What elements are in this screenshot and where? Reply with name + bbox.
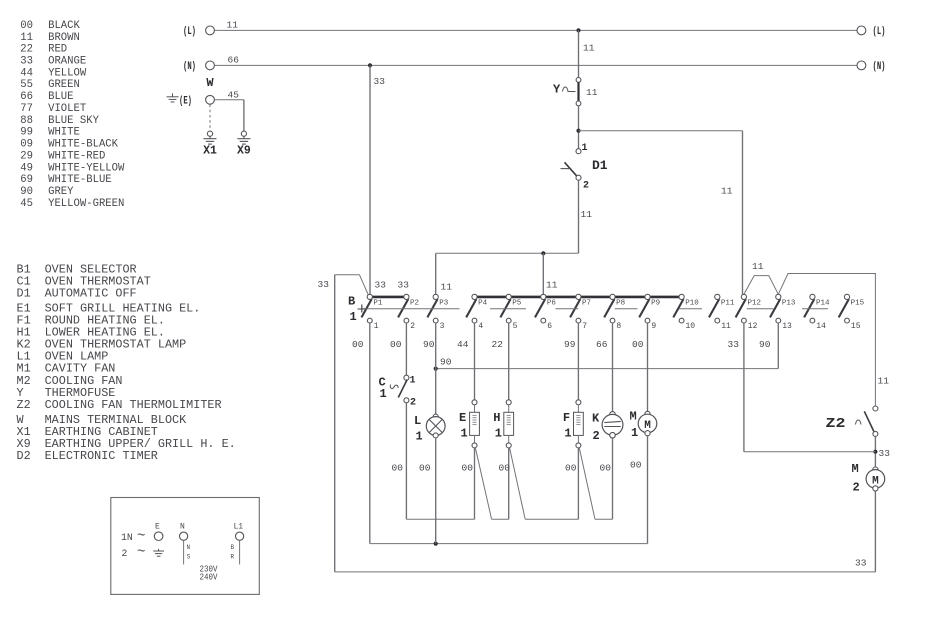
svg-text:2: 2 [410,398,416,409]
svg-text:2: 2 [593,429,600,443]
svg-text:5: 5 [513,322,518,331]
svg-text:YELLOW-GREEN: YELLOW-GREEN [48,198,124,210]
svg-text:P12: P12 [748,300,762,308]
svg-text:10: 10 [686,322,696,331]
svg-text:WHITE: WHITE [48,127,80,139]
svg-text:N: N [187,544,191,551]
svg-text:D1: D1 [17,286,31,300]
svg-text:8: 8 [616,322,621,331]
svg-text:33: 33 [398,280,410,291]
svg-text:11: 11 [20,32,33,44]
svg-text:R: R [231,554,235,561]
svg-text:X1: X1 [203,145,217,158]
svg-text:22: 22 [492,339,504,350]
svg-text:GREEN: GREEN [48,79,80,91]
svg-text:11: 11 [721,186,733,197]
svg-text:14: 14 [816,322,826,331]
svg-text:90: 90 [440,357,452,368]
svg-text:~: ~ [137,529,145,545]
svg-text:M: M [630,410,637,424]
svg-text:P4: P4 [478,300,488,308]
svg-text:BLUE SKY: BLUE SKY [48,115,100,127]
svg-text:1: 1 [582,143,588,154]
svg-text:W: W [206,76,214,90]
svg-text:00: 00 [499,463,511,474]
svg-text:00: 00 [419,463,431,474]
svg-text:1: 1 [631,426,638,440]
svg-text:00: 00 [390,339,402,350]
svg-text:1: 1 [564,427,571,441]
svg-text:YELLOW: YELLOW [48,67,87,79]
svg-text:~: ~ [137,545,145,561]
svg-text:AUTOMATIC OFF: AUTOMATIC OFF [45,286,137,300]
svg-text:P15: P15 [851,300,865,308]
svg-text:WHITE-RED: WHITE-RED [48,151,105,163]
svg-text:66: 66 [596,339,608,350]
svg-text:E: E [155,523,160,532]
svg-text:(L): (L) [873,26,886,38]
svg-text:M: M [852,462,859,476]
svg-text:X9: X9 [237,145,251,158]
svg-text:1: 1 [461,427,468,441]
svg-text:F: F [563,411,570,425]
svg-text:ELECTRONIC TIMER: ELECTRONIC TIMER [45,449,158,463]
svg-text:P9: P9 [651,300,660,308]
svg-text:1: 1 [380,387,387,401]
svg-text:11: 11 [878,376,890,387]
svg-text:L: L [414,414,421,428]
svg-text:1N: 1N [121,532,133,543]
svg-text:D2: D2 [17,449,31,463]
svg-text:L1: L1 [234,523,244,532]
svg-text:00: 00 [20,20,33,32]
svg-text:BLACK: BLACK [48,20,80,32]
svg-text:P2: P2 [410,300,419,308]
svg-text:88: 88 [20,115,33,127]
svg-text:7: 7 [582,322,587,331]
svg-text:00: 00 [462,463,474,474]
svg-text:00: 00 [352,339,364,350]
svg-text:90: 90 [423,339,435,350]
svg-text:9: 9 [651,322,656,331]
svg-text:B: B [348,295,355,309]
svg-text:COOLING FAN THERMOLIMITER: COOLING FAN THERMOLIMITER [45,398,222,412]
svg-text:77: 77 [20,103,33,115]
svg-text:33: 33 [20,56,33,68]
svg-text:P13: P13 [782,300,796,308]
svg-text:4: 4 [478,322,483,331]
svg-text:33: 33 [728,339,740,350]
svg-text:55: 55 [20,79,33,91]
svg-text:11: 11 [752,261,764,272]
svg-text:09: 09 [20,139,33,151]
svg-text:P14: P14 [816,300,830,308]
svg-text:33: 33 [374,76,386,87]
svg-text:90: 90 [20,186,33,198]
svg-text:69: 69 [20,174,33,186]
svg-text:P5: P5 [512,300,522,308]
svg-text:ORANGE: ORANGE [48,56,86,68]
svg-text:2: 2 [122,548,128,559]
svg-text:D1: D1 [592,158,608,173]
svg-text:99: 99 [564,339,576,350]
svg-text:Z2: Z2 [17,398,31,412]
svg-text:00: 00 [632,339,644,350]
svg-text:P10: P10 [685,300,699,308]
svg-text:33: 33 [318,279,330,290]
svg-text:13: 13 [782,322,792,331]
svg-text:15: 15 [851,322,861,331]
svg-text:(N): (N) [183,61,196,73]
svg-text:11: 11 [586,87,598,98]
svg-text:11: 11 [721,322,731,331]
svg-text:33: 33 [879,448,891,459]
svg-text:(E): (E) [179,95,192,107]
svg-text:P7: P7 [582,300,591,308]
svg-text:(L): (L) [183,26,196,38]
svg-text:00: 00 [392,463,404,474]
svg-text:1: 1 [416,430,423,444]
svg-text:S: S [187,554,191,561]
svg-text:11: 11 [583,43,595,54]
svg-text:99: 99 [20,127,33,139]
svg-text:H: H [493,411,500,425]
svg-text:P3: P3 [439,300,449,308]
svg-text:33: 33 [855,558,867,569]
svg-text:1: 1 [350,310,357,324]
svg-text:K: K [592,412,600,426]
svg-text:6: 6 [547,322,552,331]
svg-text:1: 1 [410,376,416,387]
svg-text:P11: P11 [721,300,735,308]
svg-text:44: 44 [457,339,469,350]
svg-text:BLUE: BLUE [48,91,73,103]
svg-text:66: 66 [20,91,33,103]
svg-text:11: 11 [227,20,239,31]
svg-text:90: 90 [759,339,771,350]
svg-text:P1: P1 [373,300,383,308]
svg-text:33: 33 [375,280,387,291]
svg-text:RED: RED [48,44,67,56]
svg-text:P8: P8 [616,300,625,308]
svg-text:B: B [231,544,235,551]
svg-text:2: 2 [583,181,589,192]
svg-text:1: 1 [495,427,502,441]
svg-text:66: 66 [228,55,240,66]
svg-text:WHITE-BLUE: WHITE-BLUE [48,174,112,186]
svg-text:3: 3 [440,322,445,331]
svg-text:12: 12 [748,322,758,331]
svg-text:2: 2 [853,481,860,495]
svg-text:00: 00 [565,463,577,474]
svg-text:11: 11 [546,280,558,291]
svg-text:E: E [459,411,466,425]
svg-text:GREY: GREY [48,186,74,198]
svg-text:00: 00 [630,460,642,471]
svg-text:WHITE-YELLOW: WHITE-YELLOW [48,162,125,174]
svg-text:Z2: Z2 [826,417,846,432]
svg-text:VIOLET: VIOLET [48,103,86,115]
svg-text:(N): (N) [873,61,886,73]
svg-text:45: 45 [228,90,240,101]
svg-text:29: 29 [20,151,33,163]
svg-text:45: 45 [20,198,33,210]
svg-text:11: 11 [581,209,593,220]
svg-text:Y: Y [553,83,561,97]
svg-text:22: 22 [20,44,33,56]
svg-text:44: 44 [20,67,33,79]
svg-text:1: 1 [374,322,379,331]
svg-text:P6: P6 [547,300,557,308]
svg-text:240V: 240V [200,572,218,583]
svg-text:11: 11 [441,282,453,293]
svg-text:BROWN: BROWN [48,32,80,44]
svg-text:00: 00 [600,463,612,474]
svg-text:N: N [180,523,185,532]
svg-text:2: 2 [410,322,415,331]
svg-text:49: 49 [20,162,33,174]
svg-text:WHITE-BLACK: WHITE-BLACK [48,139,119,151]
